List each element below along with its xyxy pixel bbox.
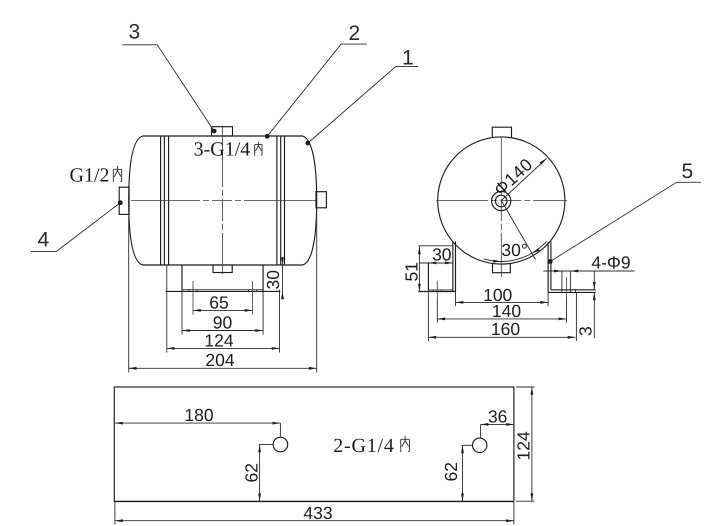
vertical center line bbox=[222, 127, 224, 274]
support foot top edge bbox=[182, 289, 263, 291]
svg-text:62: 62 bbox=[441, 462, 461, 481]
right bracket wall bbox=[548, 242, 551, 293]
top tab boss bbox=[492, 127, 511, 137]
dim 433 bbox=[115, 503, 514, 523]
right bracket foot edge bbox=[575, 290, 577, 293]
bolt hole center line left bbox=[192, 281, 194, 315]
label nei glyph 1 bbox=[255, 142, 262, 156]
dim 160 bbox=[428, 319, 575, 339]
dim 124 extension lines bbox=[167, 266, 280, 353]
left bracket foot outer edge bbox=[427, 262, 429, 291]
bolt hole wall ticks bbox=[189, 290, 257, 292]
top port boss bbox=[212, 127, 233, 136]
svg-text:5: 5 bbox=[682, 160, 694, 183]
dim 62 right bbox=[441, 445, 472, 501]
svg-text:Φ140: Φ140 bbox=[490, 154, 537, 199]
dim 3 bbox=[576, 271, 596, 338]
center port inner circle bbox=[495, 195, 507, 207]
dim 90 bbox=[182, 313, 263, 333]
dim 140 extension lines bbox=[437, 298, 566, 323]
left bracket wall bbox=[453, 241, 456, 291]
callout 2 bbox=[265, 22, 367, 139]
dim 160 extension lines bbox=[428, 292, 576, 342]
callout 4 bbox=[31, 200, 123, 251]
svg-text:30: 30 bbox=[432, 245, 452, 265]
svg-text:30°: 30° bbox=[501, 240, 527, 260]
center port outer circle bbox=[492, 191, 511, 210]
callout 3 bbox=[122, 21, 216, 134]
weld seam lines left bbox=[161, 136, 169, 265]
support left wall bbox=[181, 265, 183, 291]
svg-text:204: 204 bbox=[205, 350, 234, 370]
horizontal center line bbox=[436, 200, 567, 202]
svg-text:36: 36 bbox=[488, 406, 507, 426]
dim 204 bbox=[129, 350, 317, 370]
bolt hole center line right bbox=[252, 281, 254, 315]
dim 100 bbox=[456, 285, 549, 305]
tank shell outline bbox=[129, 136, 317, 265]
base plate bottom edge thick bbox=[114, 501, 514, 503]
30deg arc bbox=[484, 241, 547, 261]
support foot bottom edge bbox=[166, 290, 281, 292]
svg-text:124: 124 bbox=[204, 330, 233, 350]
weld seam lines right bbox=[277, 136, 285, 265]
END VIEW GROUP bbox=[402, 127, 701, 341]
left bracket hole ticks bbox=[433, 290, 442, 292]
left bracket hole center line bbox=[436, 281, 438, 298]
svg-text:124: 124 bbox=[514, 431, 534, 460]
svg-text:3: 3 bbox=[576, 326, 596, 336]
30deg angle line bbox=[501, 201, 535, 260]
horizontal center line bbox=[131, 200, 316, 202]
support right wall bbox=[262, 265, 264, 291]
base plate outline bbox=[114, 387, 514, 501]
dim 124 bbox=[167, 330, 280, 350]
dim 124 vertical bbox=[514, 387, 534, 501]
bottom port boss bbox=[213, 265, 232, 273]
port hole left bbox=[273, 437, 288, 452]
callout 1 bbox=[305, 47, 418, 146]
left port boss G1/2 bbox=[119, 187, 129, 214]
30deg arc arrowheads bbox=[493, 260, 501, 263]
tank head circle bbox=[438, 137, 565, 264]
dim 62 left bbox=[242, 445, 273, 502]
right bracket hole walls bbox=[562, 271, 571, 292]
svg-text:160: 160 bbox=[491, 319, 520, 339]
dim 4-phi9 bbox=[543, 253, 634, 273]
svg-text:4: 4 bbox=[38, 229, 50, 252]
phi140 radius line bbox=[501, 159, 546, 201]
label nei glyph 3 bbox=[401, 436, 410, 452]
svg-text:3-G1/4: 3-G1/4 bbox=[194, 139, 251, 161]
BOTTOM VIEW GROUP bbox=[114, 387, 534, 525]
callout 5 bbox=[548, 160, 701, 264]
vertical center line bbox=[500, 137, 502, 277]
bottom tab boss bbox=[493, 264, 511, 273]
svg-text:2-G1/4: 2-G1/4 bbox=[333, 435, 394, 457]
dim 433 extension lines bbox=[115, 501, 514, 524]
dim 204 extension lines bbox=[129, 213, 317, 373]
phi140 arrowhead bbox=[540, 159, 547, 165]
svg-text:433: 433 bbox=[303, 503, 332, 523]
svg-text:180: 180 bbox=[184, 405, 213, 425]
svg-text:30: 30 bbox=[263, 270, 283, 290]
right bracket hole center line bbox=[566, 277, 568, 298]
svg-text:51: 51 bbox=[402, 262, 422, 281]
dim 180 bbox=[115, 405, 281, 425]
right port boss bbox=[316, 192, 326, 208]
left bracket foot top bbox=[428, 289, 453, 291]
svg-text:140: 140 bbox=[492, 301, 521, 321]
port hole right bbox=[473, 438, 487, 452]
svg-text:3: 3 bbox=[129, 21, 141, 44]
dim 65 bbox=[193, 293, 253, 313]
svg-text:65: 65 bbox=[209, 293, 228, 313]
right bracket foot bottom bbox=[548, 291, 596, 293]
dim 30 side bbox=[263, 257, 284, 299]
dim 180 extension line bbox=[279, 423, 281, 437]
dim 90 extension lines bbox=[182, 291, 263, 334]
svg-text:4-Φ9: 4-Φ9 bbox=[591, 253, 630, 273]
dim 36 extension line bbox=[480, 424, 482, 437]
svg-text:G1/2: G1/2 bbox=[70, 165, 110, 187]
dim 140 bbox=[437, 301, 566, 321]
left bracket foot bottom bbox=[418, 291, 456, 293]
right bracket foot top bbox=[551, 289, 596, 291]
dim 30 end view bbox=[420, 245, 453, 265]
SIDE VIEW GROUP bbox=[31, 21, 418, 373]
svg-text:62: 62 bbox=[242, 463, 262, 482]
dim 51 bbox=[402, 246, 422, 291]
label nei glyph 2 bbox=[113, 166, 121, 182]
dim 36 bbox=[481, 406, 514, 426]
dim 51 extension top bbox=[418, 245, 453, 247]
svg-text:2: 2 bbox=[349, 22, 361, 45]
dim 124 extension lines bbox=[516, 387, 535, 501]
dim 100 extension lines bbox=[456, 292, 549, 306]
